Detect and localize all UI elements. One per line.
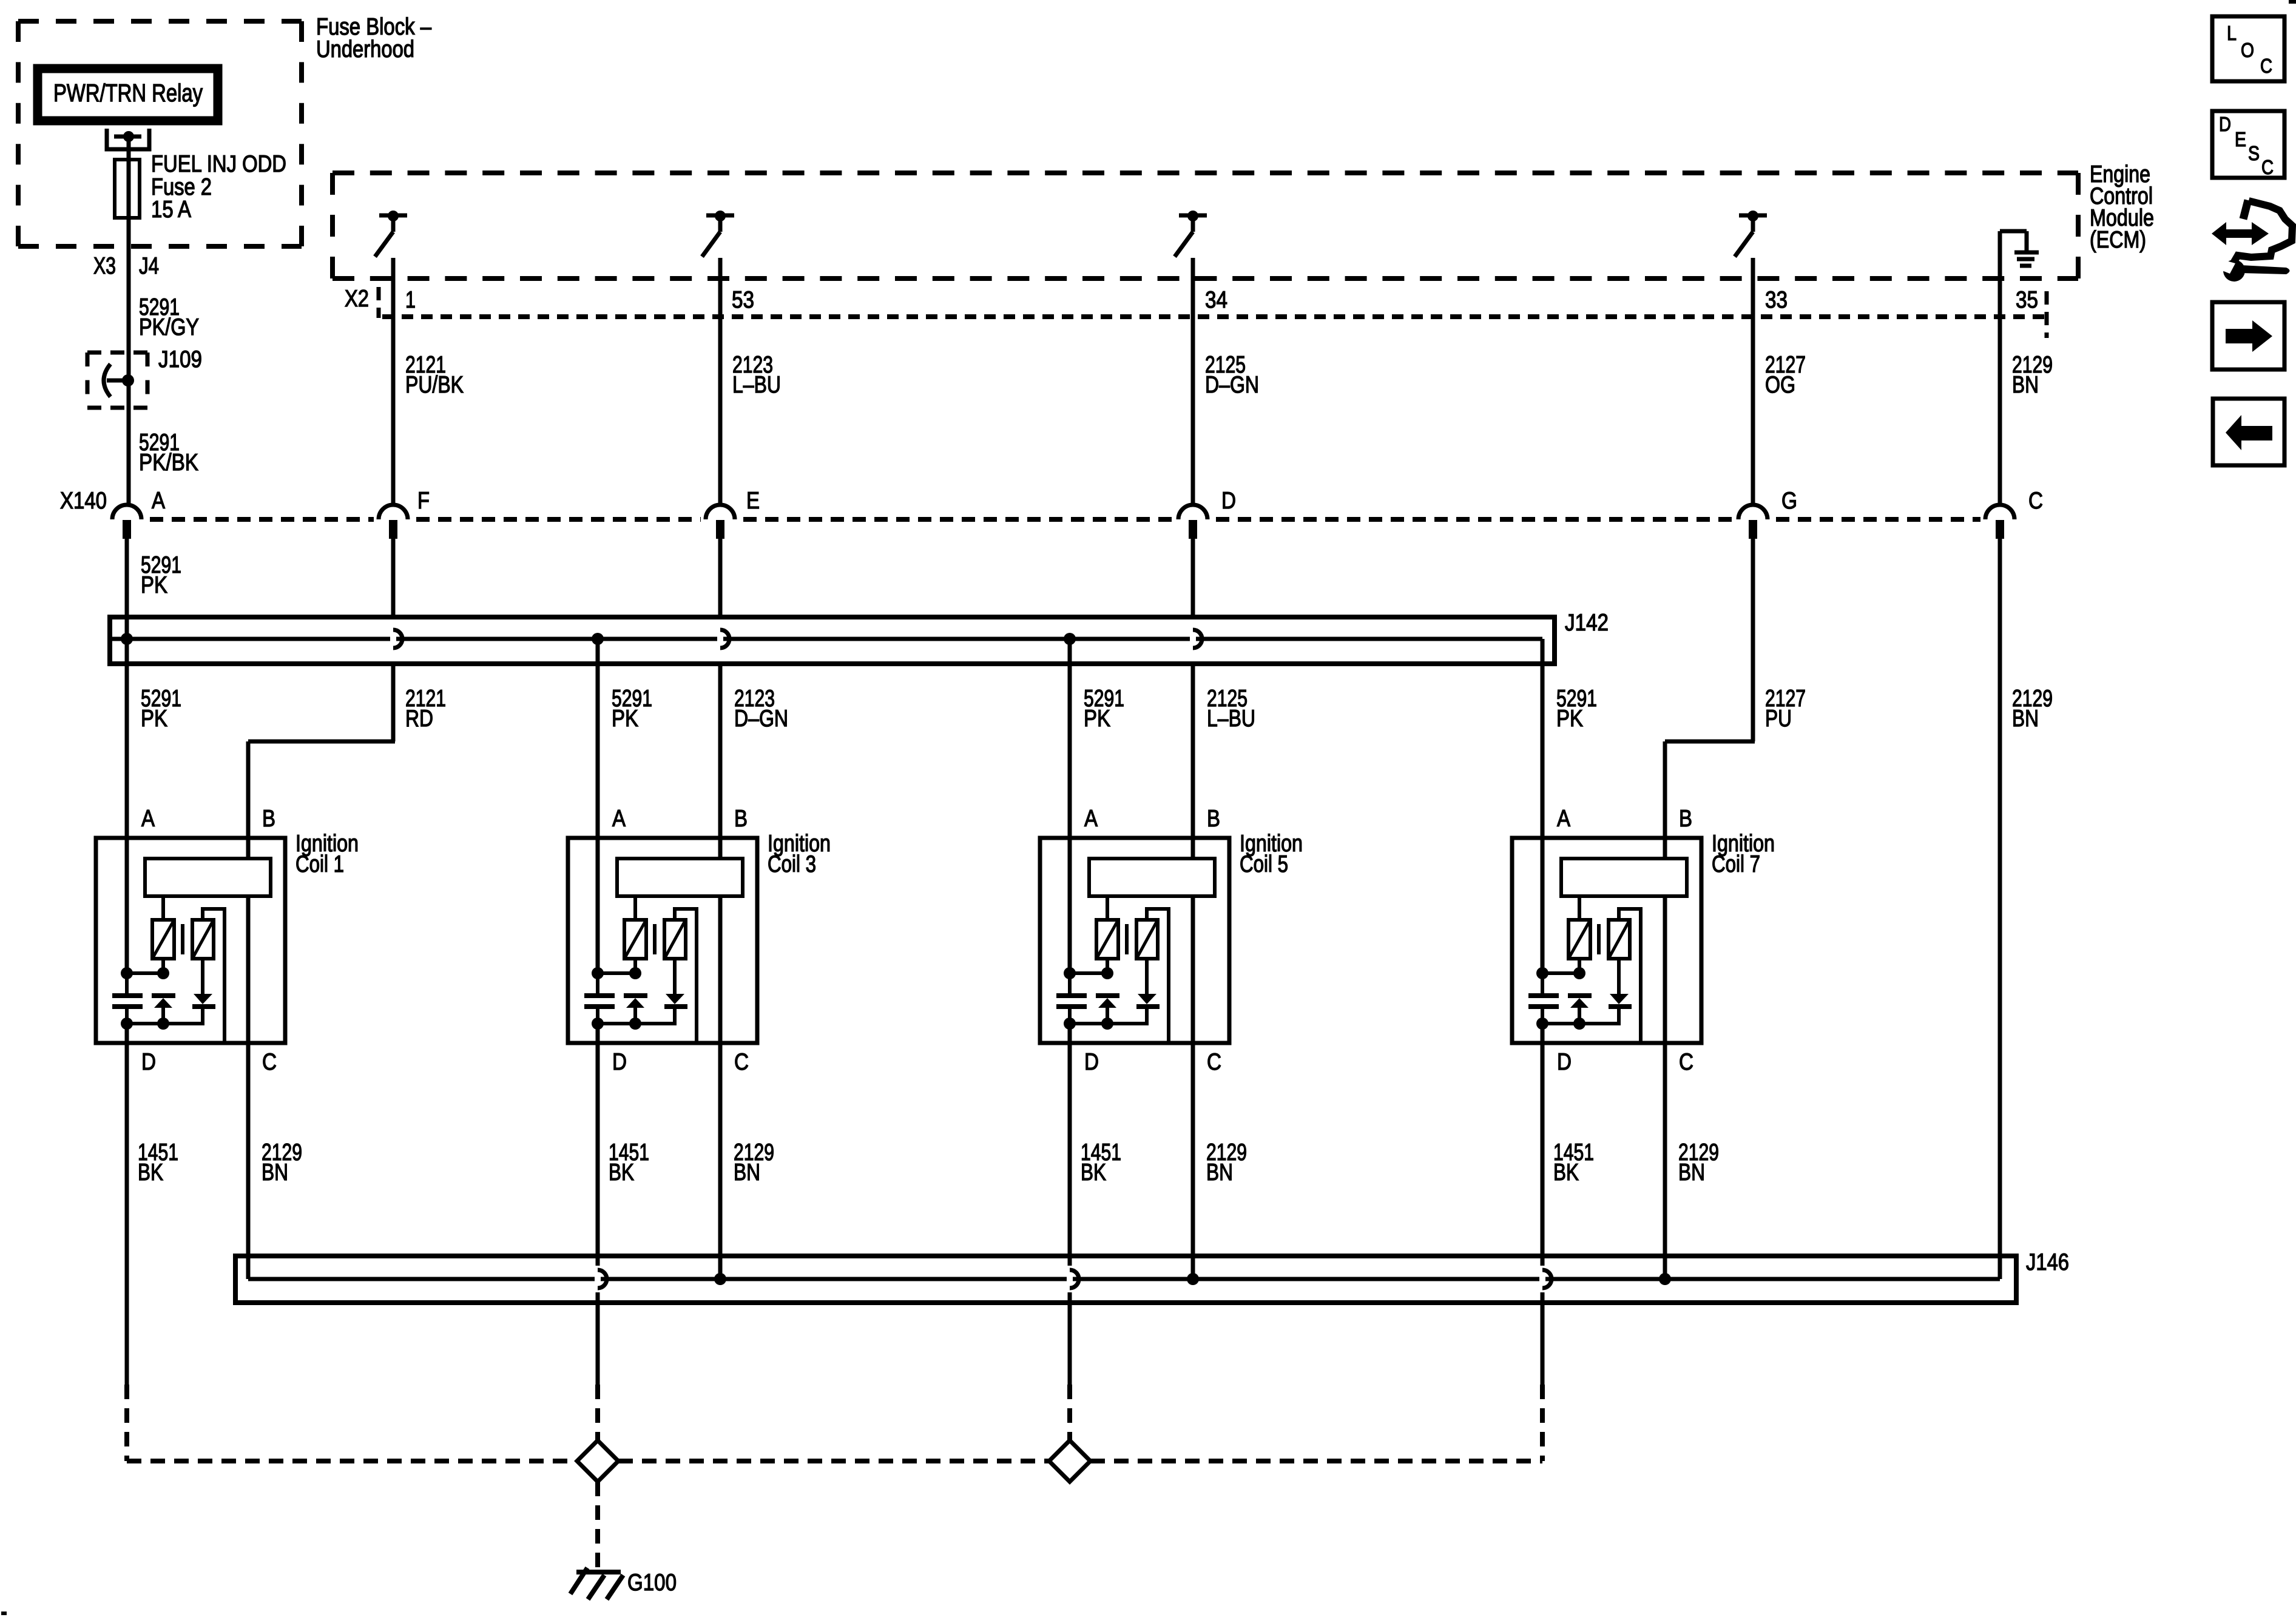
junction dot J142 at wire A coil 1 <box>121 633 133 645</box>
crossover hop on J146 at coil 7 D wire <box>1539 1266 1551 1292</box>
ignition coil 3 pin letters A B <box>612 806 748 832</box>
junction dot J146 at coil 7 C <box>1659 1273 1671 1285</box>
coil 7 pin A internal wire <box>1541 838 1545 973</box>
ground splice diamond at coil 3 feed <box>577 1440 618 1482</box>
label: Ignition Coil 1 <box>295 831 359 877</box>
relay PWR/TRN Relay <box>38 69 218 121</box>
coil 5 primary winding <box>1096 920 1118 959</box>
label: Engine Control Module (ECM) <box>2090 161 2154 253</box>
connector X140 row (dotted) <box>150 517 1980 522</box>
svg-text:Coil 3: Coil 3 <box>768 851 816 877</box>
wire coil 1 C down to J146 (2129 BN) <box>246 1043 251 1279</box>
wire label 5291 PK/BK <box>139 430 198 476</box>
coil 7 junction dots lower <box>1536 1018 1621 1030</box>
wire from relay to fuse <box>127 137 131 160</box>
svg-text:D–GN: D–GN <box>1205 372 1259 398</box>
ignition coil 1 box <box>96 838 285 1043</box>
svg-text:C: C <box>262 1049 277 1075</box>
svg-text:PK: PK <box>612 706 638 732</box>
svg-text:PK/GY: PK/GY <box>139 314 199 340</box>
ground G100 symbol <box>570 1568 623 1599</box>
coil 1 capacitor <box>112 973 143 1024</box>
wire label 5291 PK/GY <box>139 294 199 340</box>
X140 terminal D (bump and pin) <box>1178 505 1207 539</box>
wire fuse to X140 pin A <box>127 218 131 505</box>
dashed ground distribution wire (1451 BK to G100) <box>127 1459 1542 1463</box>
coil 1 primary winding bottom lead <box>161 959 165 973</box>
ignition coil 1 pin letters A B <box>141 806 275 832</box>
svg-text:33: 33 <box>1765 287 1788 313</box>
wire ECM pin 1 to X140 F (2121 PU/BK) <box>391 258 396 505</box>
coil 7 pin D wire <box>1541 1024 1545 1043</box>
svg-text:BN: BN <box>2012 372 2039 398</box>
coil 5 junction dots upper <box>1064 967 1113 979</box>
coil 1 junction dots lower <box>121 1018 204 1030</box>
svg-text:D: D <box>612 1049 627 1075</box>
junction dot J142 at wire A coil 5 <box>1064 633 1076 645</box>
wire label 2121 PU/BK <box>405 352 464 398</box>
wire label 5291 PK <box>141 552 181 598</box>
svg-text:D: D <box>141 1049 156 1075</box>
ECM driver switch Q1 (low-side driver, pin wire) <box>375 211 407 257</box>
coil 1 primary winding feed <box>161 896 165 920</box>
coil 7 connector strip <box>1561 859 1687 896</box>
coil 7 secondary winding <box>1609 920 1630 959</box>
svg-text:D: D <box>1084 1049 1099 1075</box>
coil 1 connector strip <box>145 859 271 896</box>
wire coil 5 C down to J146 (2129 BN) <box>1191 1043 1195 1279</box>
coil 5 pin letters D C <box>1084 1049 1221 1075</box>
svg-text:15 A: 15 A <box>151 197 191 223</box>
label: Ignition Coil 5 <box>1240 831 1303 877</box>
ECM driver switch Q4 (low-side driver, pin wire) <box>1735 211 1767 257</box>
svg-text:BK: BK <box>1081 1159 1106 1186</box>
coil 5 wire labels 1451 BK / 2129 BN <box>1081 1139 1247 1186</box>
svg-text:A: A <box>1084 806 1098 832</box>
svg-text:C: C <box>2260 55 2272 77</box>
wire label 2121 RD <box>405 686 446 732</box>
icon: LOC box <box>2212 16 2284 81</box>
splice pack J146 bus <box>235 1256 2016 1303</box>
dashed wire diamond to G100 <box>595 1482 600 1570</box>
svg-text:L–BU: L–BU <box>1207 706 1255 732</box>
svg-text:J4: J4 <box>139 253 159 279</box>
svg-text:Coil 7: Coil 7 <box>1712 851 1760 877</box>
coil 3 primary winding feed <box>633 896 637 920</box>
splice pack J142 bus <box>110 617 1555 664</box>
ignition coil 5 pin letters A B <box>1084 806 1220 832</box>
crossover hop on J142 at wire F <box>390 626 402 652</box>
coil 5 zener diode <box>1096 996 1119 1024</box>
wire ECM pin 33 to X140 G (2127 OG) <box>1751 258 1755 505</box>
wire label 2125 L-BU <box>1207 686 1255 732</box>
coil 5 pin C wire <box>1191 896 1195 1043</box>
svg-text:B: B <box>1679 806 1692 832</box>
inline connector J109 <box>87 353 147 408</box>
coil 5 pin D wire <box>1068 1024 1072 1043</box>
svg-text:D: D <box>1557 1049 1572 1075</box>
svg-text:BN: BN <box>262 1159 288 1186</box>
svg-text:PU: PU <box>1765 706 1792 732</box>
wire label 5291 PK (coil 7) <box>1556 686 1597 732</box>
junction dot J146 at coil 5 C <box>1187 1273 1199 1285</box>
svg-text:53: 53 <box>732 287 754 313</box>
coil 1 pin C wire <box>246 896 251 1043</box>
svg-text:1: 1 <box>405 287 416 313</box>
wire J142 to ignition coil 1 pin A (5291 PK) <box>125 639 129 838</box>
wire label 2123 L-BU <box>732 352 781 398</box>
coil 7 pin B wire into strip <box>1663 838 1667 859</box>
wire J142 to ignition coil 7 pin A (5291 PK) <box>1541 639 1545 838</box>
coil 3 diode <box>664 959 687 1024</box>
coil 7 core <box>1597 924 1601 954</box>
wire ECM pin 34 to X140 D (2125 D-GN) <box>1191 258 1195 505</box>
fuse block - underhood dashed box <box>18 21 302 246</box>
coil 5 connector strip <box>1089 859 1215 896</box>
label: Ignition Coil 7 <box>1712 831 1775 877</box>
svg-text:Coil 1: Coil 1 <box>295 851 344 877</box>
wire label 2129 BN (right) <box>2012 686 2053 732</box>
coil 5 junction dots lower <box>1064 1018 1149 1030</box>
ground splice diamond at coil 5 feed <box>1049 1440 1090 1482</box>
coil 1 secondary output to pin C side <box>203 909 225 1043</box>
svg-text:L–BU: L–BU <box>732 372 781 398</box>
pin labels X3 / J4 <box>93 253 159 279</box>
svg-text:E: E <box>746 488 760 514</box>
svg-text:PK: PK <box>1084 706 1110 732</box>
wire jog pin33/G to coil 7 pin B (2127 PU) <box>1665 741 1755 838</box>
wire ECM pin 35 to X140 C (2129 BN) <box>1998 278 2002 505</box>
wire D to coil 5 pin B (2125 L-BU) <box>1191 664 1195 838</box>
coil 5 core <box>1125 924 1129 954</box>
svg-text:B: B <box>1207 806 1220 832</box>
coil 3 junction dots lower <box>592 1018 677 1030</box>
coil 3 pin B wire into strip <box>718 838 723 859</box>
svg-text:C: C <box>1207 1049 1221 1075</box>
coil 1 pin D wire <box>125 1024 129 1043</box>
wire X140 E down through J142 <box>718 539 723 617</box>
wire X140 A to splice J142 (5291 PK) <box>125 539 129 639</box>
coil 5 pin B wire into strip <box>1191 838 1195 859</box>
wire label 2129 BN <box>2012 352 2053 398</box>
coil 1 wire labels 1451 BK / 2129 BN <box>138 1139 302 1186</box>
svg-text:Coil 5: Coil 5 <box>1240 851 1288 877</box>
coil 7 diode <box>1609 959 1632 1024</box>
svg-text:B: B <box>262 806 275 832</box>
wire label 2127 OG <box>1765 352 1806 398</box>
wire jog pin1/F to coil 1 pin B (2121 RD) <box>248 664 395 838</box>
coil 1 junction dots upper <box>121 967 169 979</box>
coil 7 capacitor <box>1528 973 1559 1024</box>
svg-text:A: A <box>612 806 626 832</box>
coil 5 primary winding bottom lead <box>1106 959 1109 973</box>
svg-text:BN: BN <box>2012 706 2039 732</box>
coil 7 pin letters D C <box>1557 1049 1693 1075</box>
svg-text:S: S <box>2248 142 2260 164</box>
coil 3 primary winding <box>624 920 646 959</box>
fuse FUEL INJ ODD Fuse 2 15A <box>115 160 140 218</box>
coil 5 diode <box>1136 959 1160 1024</box>
wire X140 C down to J146 (2129 BN) <box>1998 539 2002 1279</box>
coil 3 primary winding bottom lead <box>633 959 637 973</box>
coil 1 core <box>181 924 184 954</box>
svg-text:C: C <box>2028 488 2043 514</box>
icon: vehicle data link (car with double arrow and wrench) <box>2212 200 2292 282</box>
coil 3 zener diode <box>624 996 647 1024</box>
wire ECM pin 53 to X140 E (2123 L-BU) <box>718 258 723 505</box>
coil 1 zener diode <box>152 996 175 1024</box>
svg-text:PWR/TRN Relay: PWR/TRN Relay <box>53 79 203 107</box>
wire X140 G down to jog <box>1751 539 1755 741</box>
X140 terminal C (bump and pin) <box>1985 505 2014 539</box>
svg-text:A: A <box>1557 806 1570 832</box>
svg-text:BK: BK <box>1553 1159 1579 1186</box>
svg-text:C: C <box>1679 1049 1693 1075</box>
coil 1 diode <box>192 959 215 1024</box>
X140 terminal A (bump and pin) <box>112 505 141 539</box>
coil 3 pin C wire <box>718 896 723 1043</box>
coil 7 secondary output to pin C side <box>1619 909 1641 1043</box>
wire coil 3 D down (1451 BK) through J146, dashed below <box>596 1043 600 1440</box>
svg-text:O: O <box>2241 39 2254 61</box>
svg-text:OG: OG <box>1765 372 1795 398</box>
svg-text:G: G <box>1781 488 1797 514</box>
wire coil 7 C down to J146 (2129 BN) <box>1663 1043 1667 1279</box>
coil 3 pin A internal wire <box>596 838 600 973</box>
coil 7 zener diode <box>1568 996 1592 1024</box>
crossover hop on J142 at wire D <box>1190 626 1202 652</box>
ignition coil 7 box <box>1512 838 1701 1043</box>
crossover hop on J146 at coil 5 D wire <box>1067 1266 1079 1292</box>
svg-text:Underhood: Underhood <box>316 36 414 62</box>
wire X140 D down through J142 <box>1191 539 1195 617</box>
wire label 2125 D-GN <box>1205 352 1259 398</box>
ignition coil 7 pin letters A B <box>1557 806 1692 832</box>
coil 3 pin D wire <box>596 1024 600 1043</box>
svg-text:J109: J109 <box>158 346 202 373</box>
wire coil 3 C down to J146 (2129 BN) <box>718 1043 723 1279</box>
svg-text:PU/BK: PU/BK <box>405 372 464 398</box>
svg-text:E: E <box>2235 128 2246 150</box>
X140 terminal F (bump and pin) <box>379 505 408 539</box>
svg-text:35: 35 <box>2016 287 2038 313</box>
wire J142 to ignition coil 3 pin A (5291 PK) <box>596 639 600 838</box>
crossover hop on J142 at wire E <box>717 626 729 652</box>
connector terminal below relay <box>107 129 149 149</box>
coil 5 secondary output to pin C side <box>1147 909 1169 1043</box>
svg-text:C: C <box>2261 156 2274 178</box>
coil 5 primary winding feed <box>1106 896 1109 920</box>
coil 3 capacitor <box>584 973 615 1024</box>
coil 5 capacitor <box>1056 973 1087 1024</box>
coil 1 primary winding <box>152 920 174 959</box>
wire coil 7 D down (1451 BK) through J146, dashed below <box>1541 1043 1545 1461</box>
wire coil 5 D down (1451 BK) through J146, dashed below <box>1068 1043 1072 1440</box>
coil 7 primary winding bottom lead <box>1578 959 1581 973</box>
coil 7 primary winding feed <box>1578 896 1581 920</box>
coil 3 secondary output to pin C side <box>675 909 697 1043</box>
svg-text:J146: J146 <box>2026 1249 2069 1275</box>
coil 3 junction dots upper <box>592 967 641 979</box>
icon: back arrow box <box>2213 399 2284 465</box>
svg-text:FUEL INJ ODD: FUEL INJ ODD <box>151 151 286 177</box>
ignition coil 3 box <box>568 838 757 1043</box>
wire label 2123 D-GN <box>734 686 788 732</box>
svg-text:G100: G100 <box>627 1570 677 1596</box>
svg-text:PK/BK: PK/BK <box>139 450 198 476</box>
ECM driver switch Q3 (low-side driver, pin wire) <box>1175 211 1207 257</box>
ECM internal ground symbol (pin 35) <box>2000 231 2039 278</box>
wire label 5291 PK (coil 3) <box>612 686 652 732</box>
label: FUEL INJ ODD Fuse 2 15 A <box>151 151 286 223</box>
svg-text:RD: RD <box>405 706 433 732</box>
svg-text:PK: PK <box>141 706 167 732</box>
coil 3 wire labels 1451 BK / 2129 BN <box>609 1139 774 1186</box>
coil 7 pin C wire <box>1663 896 1667 1043</box>
svg-text:D–GN: D–GN <box>734 706 788 732</box>
coil 3 connector strip <box>617 859 743 896</box>
svg-text:BN: BN <box>1678 1159 1705 1186</box>
ignition coil 5 box <box>1040 838 1229 1043</box>
wire E to coil 3 pin B (2123 D-GN) <box>718 664 723 838</box>
ECM driver switch Q2 (low-side driver, pin wire) <box>702 211 734 257</box>
coil 5 secondary winding <box>1136 920 1158 959</box>
X140 terminal E (bump and pin) <box>706 505 735 539</box>
svg-text:(ECM): (ECM) <box>2090 227 2146 253</box>
coil 1 pin letters D C <box>141 1049 277 1075</box>
wire coil 1 D down (1451 BK), solid then dashed to ground net <box>125 1043 129 1461</box>
pin numbers 1 53 34 33 35 <box>405 287 2038 313</box>
wire J142 to ignition coil 5 pin A (5291 PK) <box>1068 639 1072 838</box>
svg-text:X2: X2 <box>345 286 369 312</box>
coil 3 pin letters D C <box>612 1049 749 1075</box>
coil 7 junction dots upper <box>1536 967 1585 979</box>
coil 1 secondary winding <box>192 920 214 959</box>
junction dot J146 at coil 3 C <box>714 1273 726 1285</box>
svg-text:D: D <box>2219 113 2231 135</box>
svg-text:X3: X3 <box>93 253 116 279</box>
coil 1 pin A internal wire <box>125 838 129 973</box>
coil 3 core <box>653 924 657 954</box>
coil 5 pin A internal wire <box>1068 838 1072 973</box>
icon: DESC box <box>2212 111 2284 178</box>
ECM dashed box (Engine Control Module) <box>333 173 2078 278</box>
wire label 5291 PK (coil 1) <box>141 686 181 732</box>
wire label 5291 PK (coil 5) <box>1084 686 1124 732</box>
svg-text:BK: BK <box>609 1159 634 1186</box>
svg-text:PK: PK <box>141 572 167 598</box>
svg-text:X140: X140 <box>60 488 107 514</box>
svg-text:BN: BN <box>734 1159 760 1186</box>
svg-text:PK: PK <box>1556 706 1583 732</box>
coil 7 primary winding <box>1568 920 1590 959</box>
svg-text:B: B <box>734 806 748 832</box>
svg-text:BN: BN <box>1206 1159 1233 1186</box>
X140 terminal G (bump and pin) <box>1738 505 1768 539</box>
svg-text:C: C <box>734 1049 749 1075</box>
svg-text:J142: J142 <box>1565 610 1609 636</box>
coil 1 pin B wire into strip <box>246 838 251 859</box>
svg-text:F: F <box>417 488 430 514</box>
crossover hop on J146 at coil 3 D wire <box>595 1266 607 1292</box>
label: Ignition Coil 3 <box>768 831 831 877</box>
svg-text:L: L <box>2227 22 2237 44</box>
junction dot J142 at wire A coil 3 <box>592 633 604 645</box>
connector X2 row (dotted) <box>379 287 2047 338</box>
svg-text:A: A <box>141 806 155 832</box>
wire label 2127 PU <box>1765 686 1806 732</box>
svg-text:BK: BK <box>138 1159 163 1186</box>
svg-text:A: A <box>152 488 165 514</box>
svg-text:34: 34 <box>1205 287 1227 313</box>
icon: forward arrow box <box>2212 302 2284 370</box>
svg-text:D: D <box>1221 488 1236 514</box>
wire X140 F down through J142 <box>391 539 396 617</box>
coil 7 wire labels 1451 BK / 2129 BN <box>1553 1139 1719 1186</box>
label: Fuse Block - Underhood <box>316 14 431 62</box>
coil 3 secondary winding <box>664 920 686 959</box>
